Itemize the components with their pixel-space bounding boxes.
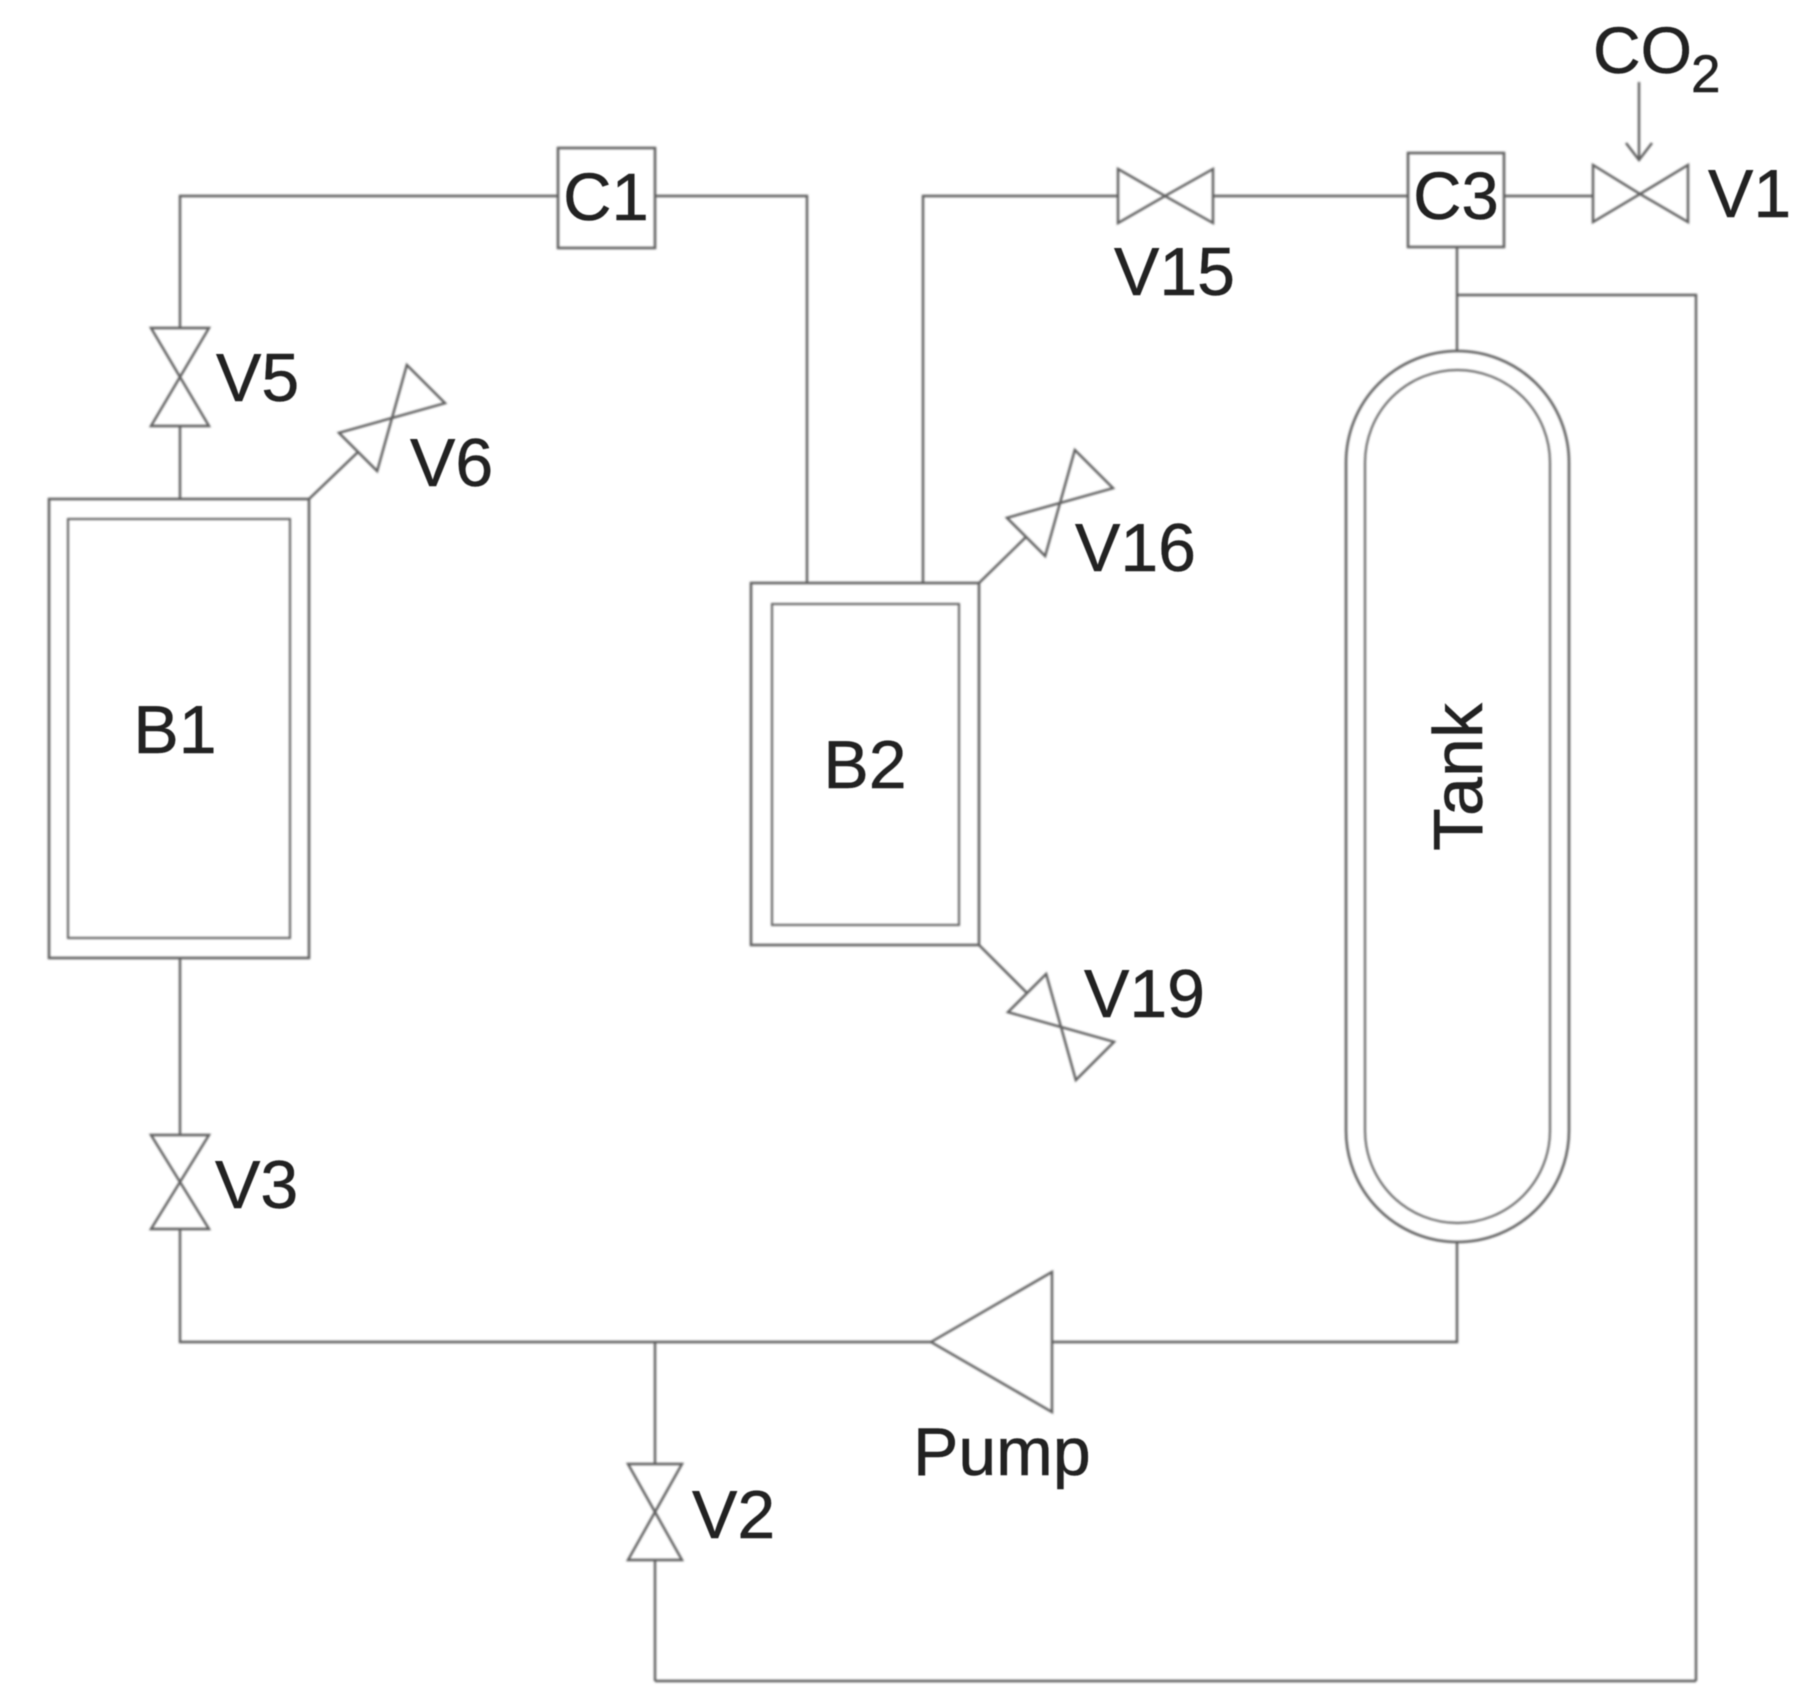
box C3 xyxy=(1408,153,1504,247)
svg-text:Pump: Pump xyxy=(913,1414,1091,1490)
valve V1 xyxy=(1593,165,1688,222)
svg-text:CO: CO xyxy=(1593,13,1692,87)
vessel B1 xyxy=(49,499,309,958)
wire stub to V16 xyxy=(979,537,1026,583)
wire C1 right to B2 top-left xyxy=(655,196,807,583)
wire V2 bottom stub xyxy=(654,1560,656,1681)
wire stub to V19 xyxy=(979,945,1027,993)
Tank capsule xyxy=(1346,351,1569,1242)
wire V3 to bottom corner xyxy=(180,1229,931,1342)
valve V5 xyxy=(151,328,209,426)
valve V16 xyxy=(1007,450,1113,556)
wire B2 top-right riser to V15 line xyxy=(923,196,1118,583)
wire V15 to C3 xyxy=(1213,195,1408,197)
vessel B2 xyxy=(751,583,979,945)
box C1 xyxy=(558,148,655,248)
svg-text:2: 2 xyxy=(1691,45,1720,104)
svg-text:V15: V15 xyxy=(1114,234,1235,310)
wire pump right to Tank bottom xyxy=(1052,1242,1457,1342)
svg-text:V16: V16 xyxy=(1075,510,1196,586)
svg-text:V3: V3 xyxy=(215,1147,298,1223)
svg-text:V5: V5 xyxy=(216,340,299,416)
wire bottom horizontal xyxy=(655,1680,1696,1682)
svg-text:C3: C3 xyxy=(1413,159,1499,234)
CO2 inlet arrow xyxy=(1638,82,1640,158)
valve V3 xyxy=(151,1135,209,1229)
svg-text:B2: B2 xyxy=(823,727,906,803)
wire stub to V6 xyxy=(309,452,358,499)
svg-text:C1: C1 xyxy=(563,160,649,235)
wire V2 top stub xyxy=(654,1342,656,1464)
wire C3 to V1 xyxy=(1504,195,1593,197)
valve V15 xyxy=(1118,169,1213,223)
wire top-left horizontal to C1 xyxy=(180,196,558,328)
pump triangle xyxy=(931,1272,1052,1412)
wire branch to right bypass xyxy=(1457,295,1696,1681)
svg-text:V1: V1 xyxy=(1708,156,1791,232)
valve V6 xyxy=(339,365,445,471)
svg-text:B1: B1 xyxy=(133,692,216,768)
valve V2 xyxy=(628,1464,682,1560)
svg-text:V2: V2 xyxy=(692,1477,775,1553)
svg-text:Tank: Tank xyxy=(1419,702,1497,851)
svg-text:V19: V19 xyxy=(1084,956,1205,1032)
valve V19 xyxy=(1008,974,1114,1080)
wire V5 to B1 top xyxy=(179,426,181,499)
wire B1 bottom to V3 xyxy=(179,958,181,1135)
wire C3 bottom to Tank top xyxy=(1456,247,1458,351)
svg-text:V6: V6 xyxy=(410,425,493,501)
